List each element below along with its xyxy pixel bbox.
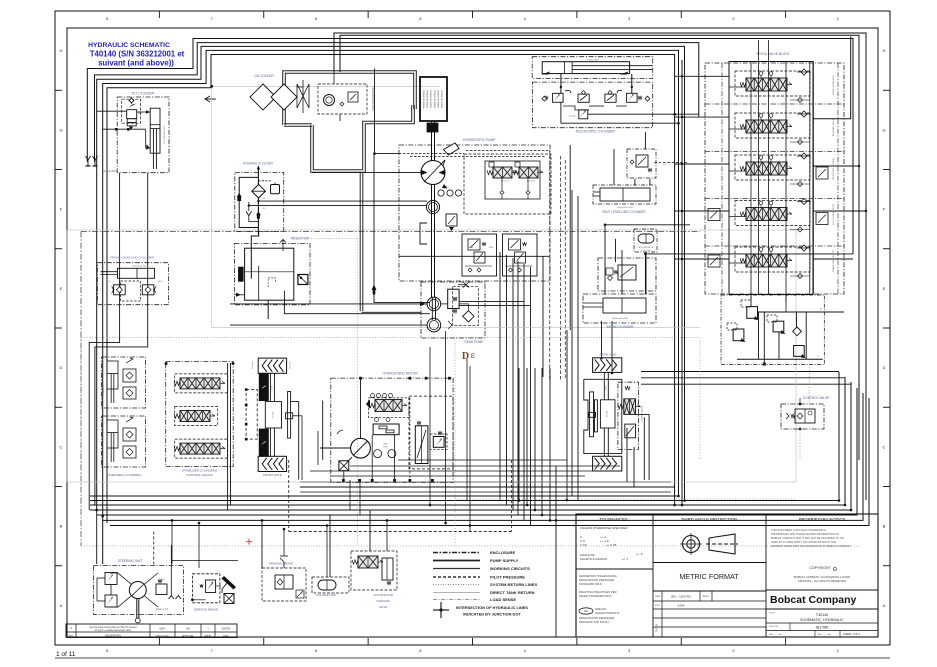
svg-text:P: P [820, 308, 822, 311]
svg-text:TILT CYLINDER SPOO: TILT CYLINDER SPOO [833, 204, 835, 225]
svg-text:0.7L 50 bar: 0.7L 50 bar [641, 249, 651, 252]
svg-text:F: F [883, 207, 886, 212]
svg-text:A: A [60, 603, 63, 608]
svg-text:1: 1 [837, 648, 840, 653]
svg-text:8: 8 [106, 648, 109, 653]
svg-text:ECN: ECN [655, 605, 660, 607]
svg-text:SPOOL VALVE BLOCK: SPOOL VALVE BLOCK [756, 52, 790, 56]
svg-text:D: D [883, 365, 886, 370]
svg-text:T40140 (S/N 363212001 et: T40140 (S/N 363212001 et [90, 50, 185, 59]
svg-text:PROPRIETARY NOTICE: PROPRIETARY NOTICE [799, 517, 846, 522]
svg-text:G: G [59, 127, 62, 132]
svg-text:PUMP 46.5 KW AT: PUMP 46.5 KW AT [441, 90, 444, 108]
svg-text:RIF: RIF [818, 634, 822, 636]
svg-text:CHARACTERISTIC: CHARACTERISTIC [595, 611, 620, 615]
svg-text:140x80x563x1085: 140x80x563x1085 [612, 318, 629, 320]
svg-text:STABILIZER CYLINDERS: STABILIZER CYLINDERS [182, 469, 217, 473]
svg-text:FRAME LEVELLING CYLINDER: FRAME LEVELLING CYLINDER [110, 256, 155, 260]
svg-text:INTERSECTION OF HYDRAULIC LINE: INTERSECTION OF HYDRAULIC LINES [456, 605, 528, 610]
svg-text:suivant (and above)): suivant (and above)) [98, 59, 174, 68]
svg-text:240 b: 240 b [138, 113, 143, 115]
svg-text:2: 2 [732, 16, 735, 21]
svg-text:T40140: T40140 [816, 613, 828, 617]
svg-text:AUXILIARY (AUX B): AUXILIARY (AUX B) [832, 118, 835, 137]
svg-text:Bobcat Company: Bobcat Company [770, 594, 857, 606]
svg-text:STEERING UNIT: STEERING UNIT [118, 559, 143, 563]
svg-text:6: 6 [315, 16, 318, 21]
svg-text:CONTROL GROUP: CONTROL GROUP [186, 473, 212, 477]
svg-text:DWN: DWN [655, 596, 661, 598]
svg-text:REL: REL [769, 634, 774, 636]
svg-text:D: D [462, 351, 469, 362]
svg-text:AFFILIATE - ALL RIGHTS RESER: AFFILIATE - ALL RIGHTS RESERVED [798, 579, 846, 583]
svg-text:1.01: 1.01 [662, 164, 667, 166]
svg-text:5: 5 [419, 648, 422, 653]
svg-text:PUMP SUPPLY: PUMP SUPPLY [490, 558, 519, 563]
svg-text:450b: 450b [489, 247, 494, 249]
svg-text:REAR AXLE: REAR AXLE [600, 353, 617, 357]
svg-text:BM – 12/07/05: BM – 12/07/05 [671, 595, 691, 599]
svg-text:HYDRAULIC SCHEMATIC: HYDRAULIC SCHEMATIC [88, 42, 170, 49]
svg-text:160cc x 1.6: 160cc x 1.6 [156, 608, 169, 611]
svg-text:CHG NOTICE: CHG NOTICE [155, 636, 169, 638]
svg-text:D: D [60, 365, 63, 370]
svg-text:6: 6 [315, 648, 318, 653]
svg-text:+/- 1°: +/- 1° [636, 552, 644, 556]
svg-text:PRIME (STEAL AX) B: PRIME (STEAL AX) B [832, 75, 835, 95]
svg-text:E: E [60, 286, 63, 291]
svg-text:PUMP 46.5 KW AT: PUMP 46.5 KW AT [426, 90, 429, 108]
svg-text:PROCESS STD PR-AH: PROCESS STD PR-AH [579, 620, 609, 624]
svg-text:240 b: 240 b [158, 281, 163, 283]
svg-text:COOLINGMOTOR: COOLINGMOTOR [371, 87, 375, 110]
svg-text:175b: 175b [160, 579, 165, 581]
svg-text:STABILIZER CYLINDERS: STABILIZER CYLINDERS [107, 473, 142, 477]
svg-text:H: H [883, 48, 886, 53]
svg-text:ACCUMULATOR: ACCUMULATOR [316, 593, 336, 597]
svg-text:INGER STANDARD DR-D: INGER STANDARD DR-D [579, 594, 612, 598]
svg-text:ACCUMULATOR: ACCUMULATOR [373, 593, 393, 597]
svg-text:+/- 0.25: +/- 0.25 [606, 543, 617, 547]
svg-text:2007/05: 2007/05 [222, 628, 231, 631]
svg-text:90/63x2,865r: 90/63x2,865r [587, 60, 599, 62]
svg-text:TOLERANCES:: TOLERANCES: [599, 517, 628, 522]
svg-text:DIA: DIA [584, 610, 588, 613]
svg-text:F: F [60, 207, 63, 212]
svg-text:3: 3 [628, 16, 631, 21]
svg-text:DESCRIPTION: DESCRIPTION [105, 636, 121, 638]
svg-text:STABILIZER: STABILIZER [102, 384, 105, 395]
svg-text:SERVICE BRAKE: SERVICE BRAKE [194, 608, 218, 612]
svg-text:7: 7 [210, 16, 213, 21]
svg-text:COPYRIGHT: COPYRIGHT [809, 566, 831, 570]
svg-text:1 of 11: 1 of 11 [56, 651, 76, 658]
svg-text:HYDROSTATIC PUMP: HYDROSTATIC PUMP [463, 138, 495, 142]
svg-text:6204: 6204 [159, 628, 165, 631]
svg-text:C: C [60, 444, 63, 449]
svg-text:UNLESS OTHERWISE SPECIFIED: UNLESS OTHERWISE SPECIFIED [580, 526, 628, 530]
svg-text:FRONT AXLE: FRONT AXLE [263, 473, 282, 477]
svg-text:THIS DOCUMENT CONTAINS CONFIDE: THIS DOCUMENT CONTAINS CONFIDENTIAL [771, 528, 827, 532]
svg-text:450b: 450b [469, 247, 474, 249]
svg-text:SHEET: SHEET [204, 636, 212, 638]
svg-text:Service brake accumulator on M: Service brake accumulator on MA port ins… [90, 626, 138, 629]
svg-text:160/85: 160/85 [605, 385, 607, 391]
svg-text:PUMP 46.5 KW AT: PUMP 46.5 KW AT [433, 90, 436, 108]
svg-text:B: B [60, 524, 63, 529]
svg-text:EXPRESS PRIOR WRITTEN PERMISSI: EXPRESS PRIOR WRITTEN PERMISSION OF BOBC… [771, 544, 852, 548]
svg-text:B: B [883, 524, 886, 529]
svg-text:LOAD SENSE: LOAD SENSE [490, 597, 516, 602]
svg-text:TITLE: TITLE [769, 613, 775, 615]
svg-text:BOBCAT COMPANY AND IT MAY NOT: BOBCAT COMPANY AND IT MAY NOT BE PROVIDE… [771, 536, 844, 540]
svg-text:H: H [60, 48, 63, 53]
svg-text:MAX: MAX [383, 443, 388, 446]
svg-text:HYDROSTATIC MOTOR: HYDROSTATIC MOTOR [382, 372, 418, 376]
svg-text:TELESCOPIC CYLINDE: TELESCOPIC CYLINDE [833, 157, 835, 180]
svg-text:USED BY A THIRD PARTY OR COPIE: USED BY A THIRD PARTY OR COPIED WITHOUT … [771, 540, 836, 544]
svg-text:+/- 1: +/- 1 [622, 557, 628, 561]
svg-text:M4: M4 [263, 198, 267, 200]
svg-text:04: 04 [779, 634, 782, 636]
svg-text:DWG NO: DWG NO [769, 626, 779, 628]
svg-text:T: T [817, 356, 819, 359]
svg-text:7: 7 [210, 648, 213, 653]
svg-text:4: 4 [524, 648, 527, 653]
svg-text:BOOM CYLINDER: BOOM CYLINDER [607, 325, 634, 329]
svg-text:TELESCOPIC CYLINDER: TELESCOPIC CYLINDER [575, 130, 615, 134]
svg-text:M2: M2 [263, 208, 267, 210]
svg-text:A: A [70, 626, 72, 630]
svg-text:ENCLOSURE: ENCLOSURE [490, 550, 515, 555]
svg-text:TILT/TELESC 80/2: TILT/TELESC 80/2 [164, 125, 166, 144]
svg-text:X.XX: X.XX [580, 543, 587, 547]
svg-text:40 246: 40 246 [272, 411, 274, 418]
svg-text:1: 1 [207, 628, 209, 631]
svg-text:INDICATED BY JUNCTION DOT: INDICATED BY JUNCTION DOT [463, 612, 521, 617]
svg-text:GEAR PUMP: GEAR PUMP [464, 340, 483, 344]
svg-text:240 b: 240 b [106, 281, 111, 283]
svg-text:WORKING CIRCUITS: WORKING CIRCUITS [490, 566, 530, 571]
svg-text:G: G [882, 127, 885, 132]
svg-text:40 246: 40 246 [607, 410, 609, 417]
svg-text:4: 4 [524, 16, 527, 21]
svg-text:200 bar: 200 bar [569, 116, 576, 118]
svg-text:ACCUMULATOR: ACCUMULATOR [639, 246, 654, 249]
svg-text:CONTROL VALVE: CONTROL VALVE [803, 396, 829, 400]
svg-text:DATE: DATE [223, 635, 229, 638]
svg-text:AJ: AJ [828, 633, 831, 636]
svg-text:PROPRIETARY AND TRADE SECRET I: PROPRIETARY AND TRADE SECRET INFORMATION… [771, 532, 839, 536]
svg-text:NO: NO [301, 593, 304, 595]
svg-text:HYDRAULIC FILTER: HYDRAULIC FILTER [243, 162, 274, 166]
svg-text:CHARGING: CHARGING [376, 599, 390, 603]
svg-text:APPROVAL: APPROVAL [182, 635, 194, 638]
svg-text:8: 8 [106, 16, 109, 21]
svg-text:SCHEMATIC, HYDRAULIC: SCHEMATIC, HYDRAULIC [800, 618, 844, 622]
svg-text:PILOT PRESSURE: PILOT PRESSURE [490, 575, 525, 580]
svg-text:VALVE: VALVE [379, 605, 387, 609]
svg-text:PUMP 46.5 KW AT: PUMP 46.5 KW AT [430, 90, 433, 108]
svg-text:SYSTEM RETURN LINES: SYSTEM RETURN LINES [490, 582, 537, 587]
svg-text:REV: REV [69, 636, 74, 638]
svg-text:of A port + updated telescopic: of A port + updated telescopic valve [95, 629, 132, 632]
svg-text:STANDARD DR-D: STANDARD DR-D [579, 582, 602, 586]
svg-text:T40140: T40140 [656, 623, 659, 632]
svg-text:RESERVOIR: RESERVOIR [291, 237, 310, 241]
svg-text:6817065: 6817065 [816, 626, 829, 630]
svg-text:THIRD ANGLE PROJECTION: THIRD ANGLE PROJECTION [681, 517, 737, 522]
svg-text:EM: EM [186, 628, 190, 631]
svg-text:2-SPEED VALVE: 2-SPEED VALVE [640, 406, 643, 422]
svg-text:110/50x62x+150: 110/50x62x+150 [132, 266, 146, 268]
svg-text:C: C [883, 444, 886, 449]
svg-text:APPD: APPD [703, 595, 709, 598]
svg-text:E: E [883, 286, 886, 291]
svg-text:METRIC FORMAT: METRIC FORMAT [679, 572, 739, 581]
svg-text:Reverse: Reverse [290, 360, 292, 368]
svg-text:5: 5 [419, 16, 422, 21]
svg-text:Forward: Forward [252, 361, 254, 368]
svg-text:OIL COOLER: OIL COOLER [254, 74, 274, 78]
svg-text:PUMP 46.5 KW AT: PUMP 46.5 KW AT [423, 90, 426, 108]
svg-text:FRAME LEVELLING SP: FRAME LEVELLING SP [832, 250, 835, 272]
svg-text:6204: 6204 [678, 604, 685, 608]
svg-text:DIRECT TANK RETURN: DIRECT TANK RETURN [490, 590, 535, 595]
svg-text:70x40x500x+1050: 70x40x500x+1050 [617, 207, 634, 209]
svg-text:160/85: 160/85 [271, 385, 273, 391]
svg-text:TILT CYLINDER: TILT CYLINDER [131, 92, 155, 96]
svg-text:1: 1 [837, 16, 840, 21]
svg-text:SELF LEVELLING CYLINDER: SELF LEVELLING CYLINDER [602, 210, 646, 214]
svg-text:3: 3 [628, 648, 631, 653]
svg-text:2: 2 [732, 648, 735, 653]
svg-text:DISP: DISP [383, 446, 388, 448]
svg-text:FILLETS & RADIUS: FILLETS & RADIUS [580, 557, 607, 561]
svg-text:PUMP 46.5 KW AT: PUMP 46.5 KW AT [437, 90, 440, 108]
svg-text:AUXILIARY: AUXILIARY [102, 169, 118, 173]
svg-text:PARKING BRAKE: PARKING BRAKE [269, 562, 293, 566]
svg-text:A: A [883, 603, 886, 608]
svg-text:E: E [471, 354, 475, 360]
svg-text:SHEET 1 OF 1: SHEET 1 OF 1 [843, 632, 861, 636]
